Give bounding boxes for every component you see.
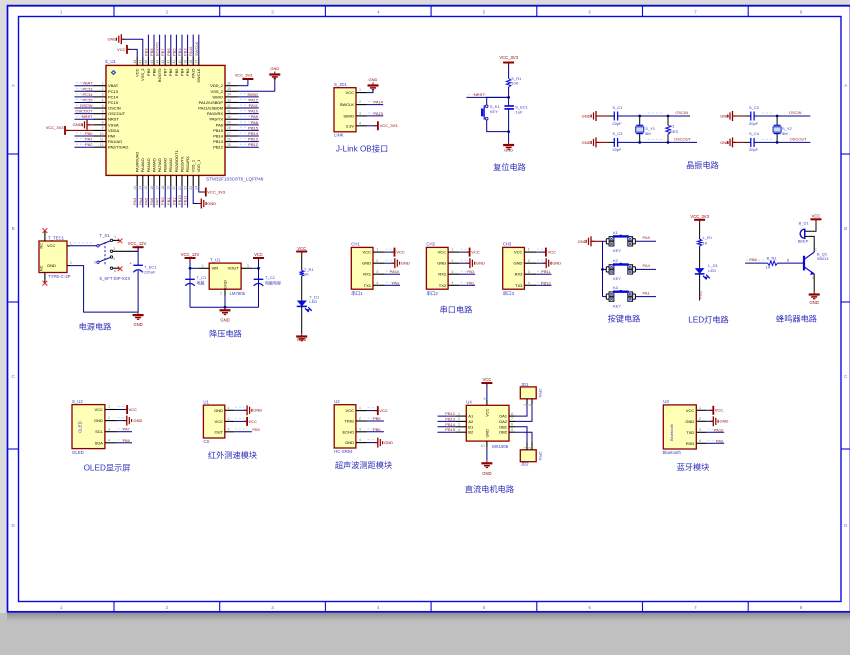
svg-text:PB15: PB15 [445,427,456,432]
svg-text:TX1: TX1 [364,283,372,288]
svg-text:OLED: OLED [78,421,83,433]
svg-text:1: 1 [60,605,63,610]
resistor B_R1 1K [766,255,778,269]
ground GND at CH2 pin 2 [460,258,485,268]
svg-text:PB7: PB7 [163,68,168,76]
svg-text:PB1/AO: PB1/AO [168,158,173,172]
svg-text:PB9: PB9 [146,68,151,76]
wire resistor to LED L_D1 [699,246,701,268]
svg-text:PB14: PB14 [213,134,224,139]
power VCC at top pin 48 [117,45,137,57]
wire VCC to switch [71,243,97,246]
capacitor T_C2 electrolytic [254,275,281,286]
svg-text:PB15: PB15 [248,125,259,130]
svg-text:3: 3 [376,270,378,274]
wire OA2 to JD1 pin 2 [515,405,532,422]
svg-text:17: 17 [155,186,159,190]
IC U4 pin 10 stub [481,441,487,448]
svg-text:VCC: VCC [248,419,257,424]
ground GND at U2 pin 4 [367,438,394,448]
svg-text:按键电路: 按键电路 [608,314,641,324]
svg-text:46: 46 [144,60,148,64]
ground GND at S_JD1 pin 1 [367,77,379,93]
svg-text:45: 45 [150,60,154,64]
svg-text:20pF: 20pF [612,121,622,126]
svg-text:GND: GND [270,66,279,71]
svg-text:OSCIN: OSCIN [789,110,802,115]
svg-text:3.3V: 3.3V [346,123,355,128]
svg-text:8M: 8M [782,131,788,136]
svg-text:PA12/USBDP: PA12/USBDP [199,100,224,105]
IC S_U1 logic symbol mark [112,71,116,75]
power VCC_12V label [128,241,147,250]
svg-text:PC15: PC15 [82,97,93,102]
svg-text:PA7/AO: PA7/AO [157,158,162,172]
svg-text:4: 4 [108,438,110,442]
svg-text:4: 4 [377,10,380,15]
svg-text:PB9: PB9 [143,48,148,56]
svg-text:8M: 8M [645,131,651,136]
svg-text:KEY: KEY [613,248,621,253]
svg-text:VCC_3V3: VCC_3V3 [207,189,226,194]
ground GND crystal1 top [582,111,609,121]
wires and net labels above S_U1 [143,35,198,57]
module U1 infrared body [203,405,224,438]
svg-text:VCC_3V3: VCC_3V3 [690,214,709,219]
wire K2 left to rail [603,268,607,270]
wire K1 right with net label PA5 [634,239,636,244]
connector T_TEC1 pin 1 stub [67,241,72,245]
svg-text:VDD_1: VDD_1 [196,159,201,173]
switch T_S1 contact 6 with no-connect [110,266,122,273]
svg-text:LINK: LINK [334,133,344,138]
svg-text:GND: GND [504,148,513,153]
svg-text:4: 4 [376,281,378,285]
svg-text:PA15: PA15 [191,68,196,78]
svg-text:23: 23 [189,186,193,190]
svg-text:4: 4 [377,605,380,610]
svg-text:2: 2 [376,259,378,263]
ground GND crystal1 bottom [582,137,609,147]
wire pin 10 to ground [486,447,488,460]
ground GND at CH1 pin 2 [385,258,410,268]
svg-text:6: 6 [114,269,116,273]
svg-text:5: 5 [483,10,486,15]
svg-text:OSCOUT: OSCOUT [674,136,692,141]
svg-text:PA10/RX: PA10/RX [207,111,223,116]
svg-text:电解电容: 电解电容 [265,279,281,285]
svg-text:6: 6 [102,109,104,113]
wire OSCOUT crystal2 [754,136,810,142]
svg-text:2: 2 [108,416,110,420]
svg-text:TX2: TX2 [439,283,447,288]
svg-text:43: 43 [161,60,165,64]
wire and net label PB5 at U2 pin 2 [367,416,384,421]
module S_U2 pin stubs and numbers [105,405,117,443]
svg-text:2: 2 [359,417,361,421]
svg-text:VCC_12V: VCC_12V [181,252,200,257]
wire LED to ground [301,306,303,333]
svg-text:VCC: VCC [297,246,306,251]
regulator T_U1 pin 3 stub [241,264,252,268]
svg-text:14: 14 [139,186,143,190]
ground GND reset circuit [503,142,514,153]
svg-text:OA2: OA2 [499,419,508,424]
svg-text:3: 3 [271,605,274,610]
svg-text:BOOT0: BOOT0 [155,42,160,56]
svg-text:NRST: NRST [82,114,93,119]
svg-text:3: 3 [108,427,110,431]
svg-text:T_S1: T_S1 [99,233,110,238]
svg-text:3: 3 [271,10,274,15]
wire OA1 to JD1 pin 1 [515,405,527,416]
svg-text:VDDA: VDDA [108,128,119,133]
svg-text:3: 3 [528,270,530,274]
svg-text:PB14: PB14 [445,422,456,427]
svg-text:1K: 1K [703,240,708,245]
svg-text:3: 3 [113,247,115,251]
LED T_D1 [297,294,320,312]
svg-text:31: 31 [227,109,231,113]
svg-text:PA10: PA10 [249,109,259,114]
LED L_D1 [695,263,719,279]
net label NRST and wire [466,92,508,97]
IC U4 left pin stubs and numbers [455,412,466,432]
svg-text:PB5: PB5 [373,416,381,421]
IC S_U1 top pin numbers 48-37 [133,60,199,64]
svg-text:2: 2 [699,417,701,421]
svg-text:Bluetooth: Bluetooth [669,424,674,441]
svg-text:S_U1: S_U1 [105,59,117,64]
svg-text:GND: GND [514,261,523,266]
svg-text:BOOT0: BOOT0 [157,68,162,82]
svg-text:20pF: 20pF [612,147,622,152]
wire VOUT to VCC and T_C2 [252,261,260,307]
wire K2 right with net label PA4 [634,267,636,272]
svg-text:SWCLK: SWCLK [194,41,199,56]
svg-text:35: 35 [227,87,231,91]
power VCC at CH2 pin 1 [460,248,480,257]
svg-text:38: 38 [189,60,193,64]
svg-text:SWIO: SWIO [212,94,223,99]
svg-text:B2: B2 [468,430,474,435]
wires and net labels below S_U1 [132,186,187,207]
junction reset ground [507,130,510,133]
svg-text:VBAT: VBAT [108,83,119,88]
svg-text:PA5/AO: PA5/AO [146,158,151,172]
wire K3 left to rail [603,296,607,298]
power VCC at U2 pin 1 [367,406,388,415]
svg-text:3: 3 [458,423,460,427]
ground GND power circuit [133,312,144,327]
svg-text:Bluetooth: Bluetooth [663,450,682,455]
svg-text:41: 41 [172,60,176,64]
svg-text:VCC: VCC [471,250,480,255]
svg-text:TYPE-C-2P: TYPE-C-2P [48,274,71,279]
svg-text:1: 1 [523,404,527,406]
svg-text:RX3: RX3 [515,272,524,277]
IC S_U1 bottom pin stubs [137,175,199,186]
capacitor S_C4 20pF [745,131,760,152]
svg-text:CH1: CH1 [351,242,360,247]
svg-text:PB0: PB0 [252,427,260,432]
wire K3 right with net label PA1 [634,294,636,299]
svg-text:PB12: PB12 [445,411,456,416]
svg-text:GND: GND [220,318,229,323]
connector CH2 pin names [437,250,447,288]
svg-text:27: 27 [227,132,231,136]
svg-text:32: 32 [227,104,231,108]
connector JD1 body [520,387,536,399]
wire OB1 to JD2 pin 1 [515,427,527,443]
zone dividers top margin [114,6,748,17]
svg-text:VCC: VCC [254,252,263,257]
svg-text:OSCOUT: OSCOUT [75,109,93,114]
svg-text:SDA: SDA [95,440,104,445]
svg-text:PA10: PA10 [714,427,724,432]
svg-text:CH3: CH3 [503,242,512,247]
svg-text:B_R1: B_R1 [767,255,778,260]
svg-text:PB0/AO: PB0/AO [163,158,168,172]
svg-text:GND: GND [297,337,306,342]
ground GND at top pin 47 VSS_3 [108,34,143,57]
svg-text:GND: GND [134,418,143,423]
svg-text:TRIG: TRIG [344,419,354,424]
module U3 pin stubs and numbers [696,406,706,443]
svg-text:SWCLK: SWCLK [340,102,355,107]
connector CH2 body [426,247,448,289]
power VCC at U3 pin 1 [707,406,724,415]
connector T_TEC1 NC pin names [40,243,44,271]
sheet top edge shadow line [7,4,850,6]
svg-text:T_U1: T_U1 [210,258,221,263]
svg-text:2: 2 [528,404,532,406]
IC S_U1 bottom pin numbers 13-24 [133,186,199,190]
svg-text:A2: A2 [468,419,474,424]
svg-text:25: 25 [227,143,231,147]
module U3 bluetooth body [663,405,696,449]
ground GND at VSS_2 pin 35 [238,66,281,91]
svg-text:PB11: PB11 [541,269,551,274]
svg-text:TXD: TXD [686,430,694,435]
svg-text:直流电机电路: 直流电机电路 [465,484,514,494]
svg-text:PA0: PA0 [85,131,93,136]
svg-text:VCC: VCC [396,250,405,255]
wire buzzer to collector [805,236,814,252]
svg-text:PB2/BOOT1: PB2/BOOT1 [174,149,179,172]
ground GND at S_U2 pin 2 [117,416,143,426]
svg-text:VCC: VCC [135,68,140,77]
svg-text:29: 29 [227,121,231,125]
wire OSCOUT crystal1 [618,136,697,142]
svg-text:GND: GND [362,261,371,266]
svg-text:SCL: SCL [95,429,104,434]
svg-text:VCC: VCC [129,407,138,412]
svg-text:4: 4 [102,98,104,102]
wire VCC_12V rail down [137,247,139,265]
svg-text:3: 3 [699,428,701,432]
svg-text:降压电路: 降压电路 [209,329,242,339]
svg-text:39: 39 [183,60,187,64]
svg-text:K3: K3 [613,285,619,290]
svg-text:5: 5 [483,605,486,610]
svg-text:VCC: VCC [346,90,355,95]
IC S_U1 left pin names [108,83,128,149]
svg-text:2: 2 [166,10,169,15]
module U2 ultrasonic body [334,405,356,448]
svg-text:GND: GND [482,471,491,476]
svg-text:4: 4 [359,438,361,442]
svg-text:B: B [12,226,15,231]
crystal S_Y1 8M [636,116,656,142]
connector CH3 body [503,247,525,289]
svg-text:KEY: KEY [613,276,621,281]
ground GND crystal2 top [720,111,745,121]
svg-text:PB6: PB6 [166,48,171,56]
push button K2 KEY [609,258,633,281]
svg-text:PB4: PB4 [179,68,184,76]
svg-text:OB1: OB1 [499,424,508,429]
svg-text:SWCLK: SWCLK [196,68,201,83]
buzzer B_D1 BEEP symbol [798,221,810,244]
svg-text:PB7: PB7 [160,48,165,56]
svg-text:PB11: PB11 [183,195,188,205]
svg-text:1: 1 [202,264,204,268]
svg-text:S8013: S8013 [817,256,829,261]
zone numbers top [60,10,803,15]
svg-text:1: 1 [523,447,527,449]
connector CH3 pin names [514,250,524,288]
svg-text:PC14: PC14 [108,94,119,99]
svg-text:19: 19 [167,186,171,190]
svg-text:PB3: PB3 [183,48,188,56]
svg-text:1: 1 [451,248,453,252]
switch T_S1 mechanical link dashed [104,242,106,266]
svg-text:1: 1 [60,10,63,15]
power VCC_3V3 reset circuit [499,55,518,66]
svg-text:VCC: VCC [363,250,372,255]
wire OB2 to JD2 pin 2 [515,432,532,442]
svg-text:PA9: PA9 [392,280,400,285]
svg-text:OUT: OUT [215,429,224,434]
junction crystal2 [776,115,779,118]
svg-text:PA6: PA6 [149,197,154,205]
wire VCC to resistor T_R1 [301,255,303,271]
svg-text:PA2: PA2 [85,142,93,147]
svg-text:PA11: PA11 [249,103,259,108]
svg-text:2: 2 [102,87,104,91]
capacitor S_C1 20pF [609,105,624,126]
svg-text:VCC: VCC [215,419,224,424]
ground GND at CH3 pin 2 [536,258,561,268]
svg-text:PB1: PB1 [166,197,171,205]
svg-text:PB14: PB14 [248,131,259,136]
svg-text:22: 22 [183,186,187,190]
svg-text:7: 7 [694,605,697,610]
capacitor S_C3 20pF [609,131,624,152]
svg-text:RX2: RX2 [438,272,447,277]
svg-text:GND: GND [207,201,216,206]
svg-text:9: 9 [484,397,486,401]
svg-text:PA14: PA14 [374,100,384,105]
junction node reset [507,96,510,99]
connector JD1 pin stubs and numbers [523,399,532,406]
svg-text:PB6: PB6 [373,427,381,432]
svg-text:NC: NC [40,243,44,249]
svg-text:VCC: VCC [94,407,103,412]
svg-text:1: 1 [102,82,104,86]
svg-text:PA3: PA3 [467,269,475,274]
svg-text:PA13: PA13 [374,111,384,116]
svg-text:37: 37 [195,60,199,64]
svg-text:5: 5 [511,428,513,432]
svg-text:VCC: VCC [47,243,56,248]
IC S_U1 right pin numbers 36-25 [227,82,231,147]
svg-text:PB10: PB10 [541,280,552,285]
switch T_S1 pole 2 arm [94,256,115,265]
connector CH1 pin stubs and numbers [373,248,385,286]
wire cap to ground rail [137,271,139,312]
svg-text:晶振电路: 晶振电路 [686,160,719,170]
wire VCC_12V to VIN and T_C1 [189,261,199,307]
svg-text:S_C3: S_C3 [612,131,623,136]
power VCC buzzer [811,214,822,223]
svg-text:串口电路: 串口电路 [440,305,473,315]
connector JD2 pin stubs and numbers [523,443,532,450]
IC U4 MX1508 body [466,405,509,441]
resistor L_R1 1K [697,235,712,246]
connector CH1 pin names [362,250,372,288]
svg-text:GND: GND [485,429,489,438]
wire to resistor L_R1 [699,223,701,239]
svg-text:PB1: PB1 [698,290,703,298]
junction button rail K2 [601,268,604,271]
connector T_TEC1 pin names VCC GND [47,243,56,268]
svg-text:PA12: PA12 [249,97,259,102]
svg-text:GND: GND [108,37,117,42]
svg-text:GND: GND [437,261,446,266]
svg-text:GND: GND [94,418,103,423]
wire and net label PA10 at U3 pin 3 [707,427,725,432]
svg-text:KEY: KEY [490,109,498,114]
svg-text:JD1: JD1 [521,382,529,387]
svg-text:3: 3 [247,264,249,268]
svg-text:CH2: CH2 [426,242,435,247]
svg-text:J-Link OB接口: J-Link OB接口 [336,144,388,154]
svg-text:S_U2: S_U2 [72,399,83,404]
wire and net label PB10 at CH3 pin 4 [536,280,551,285]
svg-text:VIN: VIN [212,266,219,271]
svg-text:VBAT: VBAT [82,81,93,86]
svg-text:VCC: VCC [379,408,388,413]
svg-text:8: 8 [800,605,803,610]
module U2 pin names [342,408,354,445]
power VCC_3V3 at VDD_1 pin 24 [199,186,226,196]
wire LED down with rotated net label [698,274,703,301]
svg-text:电解: 电解 [197,279,205,285]
svg-text:K1: K1 [613,230,619,235]
net labels left of S_U1 [75,81,93,147]
svg-text:PB10: PB10 [177,194,182,205]
svg-text:PA11/USBDM: PA11/USBDM [198,106,223,111]
connector T_TEC1 TYPE-C body [39,241,67,273]
wire button ground rail [602,241,604,296]
wire and net label PA9 at CH1 pin 4 [385,280,400,285]
svg-text:8: 8 [800,10,803,15]
svg-text:蓝牙模块: 蓝牙模块 [677,462,710,472]
svg-text:42: 42 [167,60,171,64]
transistor B_Q1 S8013 [804,248,829,280]
